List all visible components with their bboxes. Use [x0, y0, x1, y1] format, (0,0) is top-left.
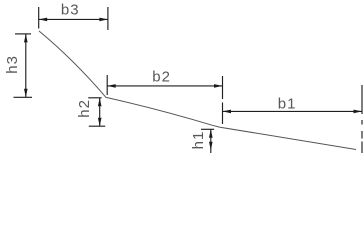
svg-text:b1: b1	[278, 96, 297, 113]
svg-text:h3: h3	[4, 55, 21, 74]
svg-text:h1: h1	[190, 131, 207, 150]
svg-text:b3: b3	[61, 1, 80, 18]
svg-text:h2: h2	[76, 99, 93, 118]
svg-text:b2: b2	[152, 68, 171, 85]
